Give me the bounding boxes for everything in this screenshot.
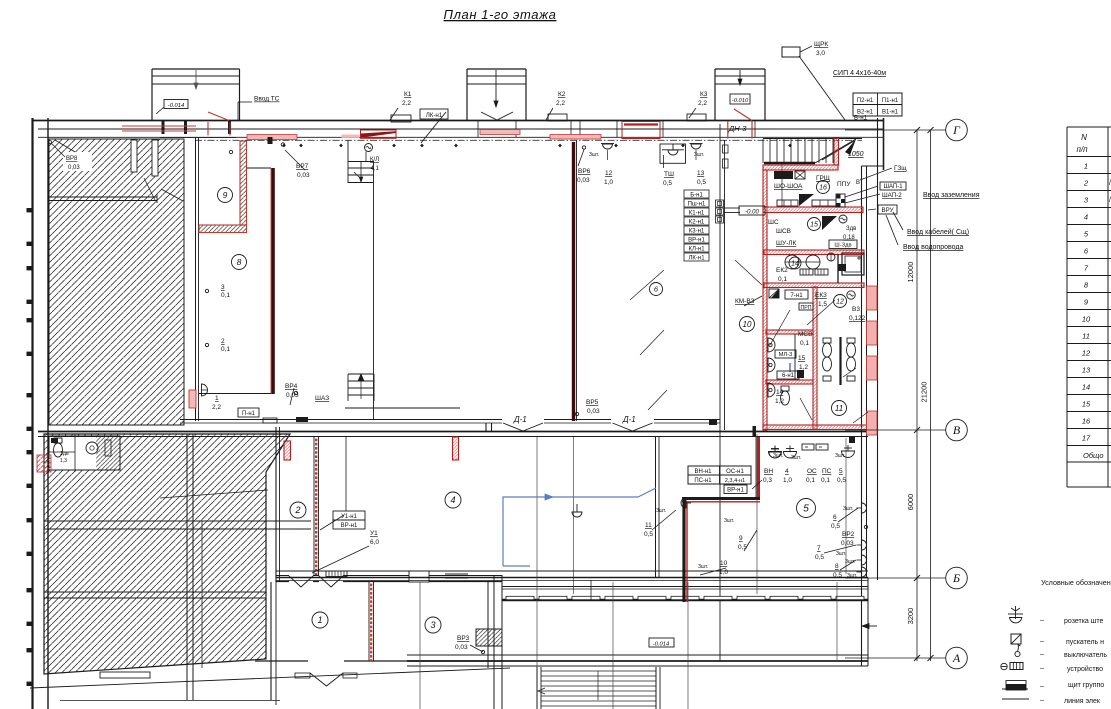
- svg-text:Д-1: Д-1: [622, 415, 636, 424]
- svg-text:10: 10: [720, 560, 728, 567]
- svg-text:линия элек: линия элек: [1064, 698, 1101, 705]
- svg-text:В1-н1: В1-н1: [882, 110, 899, 116]
- svg-text:К/Л: К/Л: [370, 157, 379, 163]
- svg-text:выключатель: выключатель: [1064, 652, 1107, 659]
- svg-text:ТШ: ТШ: [664, 171, 674, 178]
- svg-text:–: –: [1040, 638, 1044, 645]
- svg-text:ВР3: ВР3: [457, 635, 470, 642]
- svg-text:ШАП-1: ШАП-1: [883, 184, 903, 190]
- svg-text:1: 1: [1084, 162, 1088, 171]
- svg-text:В3: В3: [852, 306, 860, 313]
- svg-text:ЕК2: ЕК2: [776, 267, 788, 274]
- svg-text:ВР-н1: ВР-н1: [341, 523, 358, 529]
- svg-text:15: 15: [798, 355, 806, 362]
- svg-text:В: В: [953, 423, 961, 437]
- svg-text:6-н1: 6-н1: [782, 373, 795, 379]
- svg-text:1: 1: [215, 395, 219, 402]
- svg-text:1050: 1050: [848, 151, 864, 158]
- svg-text:12: 12: [1082, 349, 1091, 358]
- svg-text:0,5: 0,5: [833, 572, 842, 579]
- svg-text:Ввод заземления: Ввод заземления: [923, 192, 980, 199]
- svg-text:ВР2: ВР2: [842, 531, 855, 538]
- svg-text:12: 12: [605, 170, 613, 177]
- svg-text:МЛ-3: МЛ-3: [779, 352, 793, 358]
- svg-text:ВР7: ВР7: [296, 163, 309, 170]
- svg-text:6000: 6000: [906, 494, 915, 511]
- svg-text:N: N: [1081, 133, 1087, 142]
- svg-text:0,5: 0,5: [837, 477, 846, 484]
- svg-text:1,0: 1,0: [604, 179, 613, 186]
- svg-text:5: 5: [803, 504, 809, 515]
- svg-text:МСВ: МСВ: [798, 331, 812, 338]
- svg-text:ППУ: ППУ: [837, 181, 851, 188]
- svg-text:-0.014: -0.014: [653, 642, 669, 648]
- svg-text:8: 8: [237, 257, 242, 267]
- svg-text:10: 10: [1082, 315, 1091, 324]
- svg-text:0,1: 0,1: [221, 346, 230, 353]
- svg-text:0,3: 0,3: [763, 477, 772, 484]
- svg-text:16: 16: [819, 184, 827, 191]
- svg-text:2,2: 2,2: [402, 100, 411, 107]
- svg-text:КЛ-н1: КЛ-н1: [688, 247, 705, 253]
- svg-text:0,5: 0,5: [697, 179, 706, 186]
- svg-text:2: 2: [221, 338, 225, 345]
- svg-text:Здв: Здв: [60, 451, 69, 457]
- svg-text:4: 4: [785, 468, 789, 475]
- svg-text:13: 13: [697, 170, 705, 177]
- svg-text:ОС: ОС: [807, 468, 817, 475]
- svg-text:9: 9: [739, 535, 743, 542]
- svg-text:ГЗщ: ГЗщ: [894, 165, 907, 172]
- svg-text:2: 2: [1083, 179, 1089, 188]
- svg-text:11: 11: [645, 522, 652, 529]
- svg-text:17: 17: [1082, 434, 1091, 443]
- svg-text:ПС-н1: ПС-н1: [694, 478, 712, 484]
- svg-text:1,5: 1,5: [818, 301, 827, 308]
- svg-text:0,1: 0,1: [806, 477, 815, 484]
- svg-text:6: 6: [833, 514, 837, 521]
- svg-text:1,2: 1,2: [775, 398, 784, 405]
- svg-text:ПРП: ПРП: [801, 305, 812, 311]
- svg-text:ВР6: ВР6: [578, 168, 591, 175]
- svg-text:2,3,4-н1: 2,3,4-н1: [725, 478, 746, 484]
- svg-text:Пш-н1: Пш-н1: [688, 202, 706, 208]
- svg-text:7-н1: 7-н1: [790, 292, 803, 299]
- svg-text:0,5: 0,5: [663, 180, 672, 187]
- svg-text:12000: 12000: [906, 262, 915, 283]
- svg-text:16: 16: [1082, 417, 1091, 426]
- svg-text:В: В: [856, 180, 860, 186]
- svg-text:Д-1: Д-1: [513, 415, 527, 424]
- svg-text:Здв: Здв: [846, 226, 856, 232]
- svg-text:1: 1: [317, 615, 322, 625]
- svg-text:Ш-Здв: Ш-Здв: [834, 243, 851, 249]
- svg-text:Зшт.: Зшт.: [724, 518, 734, 524]
- svg-text:П1-н1: П1-н1: [882, 98, 899, 104]
- svg-text:14: 14: [776, 389, 784, 396]
- svg-text:–: –: [1040, 651, 1044, 658]
- svg-text:3200: 3200: [906, 608, 915, 625]
- svg-text:ДН-3: ДН-3: [728, 124, 747, 133]
- svg-text:0,5: 0,5: [815, 554, 824, 561]
- svg-text:11: 11: [1082, 332, 1090, 341]
- svg-text:9: 9: [223, 190, 228, 200]
- svg-text:План 1-го этажа: План 1-го этажа: [444, 7, 557, 22]
- svg-text:К2-н1: К2-н1: [689, 220, 705, 226]
- svg-text:0,03: 0,03: [68, 165, 80, 171]
- svg-text:12: 12: [836, 298, 844, 305]
- svg-text:ЛК-н1: ЛК-н1: [426, 112, 443, 119]
- svg-text:1,0: 1,0: [719, 569, 728, 576]
- svg-text:ВР4: ВР4: [285, 383, 298, 390]
- svg-text:3: 3: [221, 284, 225, 291]
- svg-text:14: 14: [791, 260, 799, 267]
- svg-text:А: А: [952, 651, 961, 665]
- svg-text:ШО-ШОА: ШО-ШОА: [774, 183, 803, 190]
- svg-text:2: 2: [294, 505, 300, 515]
- svg-text:К1-н1: К1-н1: [689, 211, 705, 217]
- svg-text:ПС: ПС: [822, 468, 832, 475]
- svg-text:-0.010: -0.010: [732, 98, 749, 104]
- svg-text:–: –: [1040, 683, 1044, 690]
- svg-text:–: –: [1040, 617, 1044, 624]
- svg-text:ВН: ВН: [764, 468, 773, 475]
- svg-text:0,03: 0,03: [455, 644, 468, 651]
- svg-text:4: 4: [1084, 213, 1088, 222]
- svg-text:3: 3: [430, 620, 435, 630]
- svg-text:0,5: 0,5: [831, 523, 840, 530]
- svg-text:Ввод кабелей( Сщ): Ввод кабелей( Сщ): [907, 228, 969, 236]
- svg-text:пускатель н: пускатель н: [1066, 639, 1104, 646]
- svg-text:Зшт.: Зшт.: [694, 152, 704, 158]
- svg-text:2,2: 2,2: [698, 100, 707, 107]
- svg-text:0,1: 0,1: [800, 340, 809, 347]
- svg-text:6,0: 6,0: [370, 539, 379, 546]
- svg-text:3,0: 3,0: [816, 50, 825, 57]
- svg-text:ШАП-2: ШАП-2: [882, 192, 902, 199]
- svg-text:10: 10: [743, 320, 752, 329]
- svg-text:К3: К3: [700, 91, 708, 98]
- svg-text:4: 4: [450, 495, 455, 505]
- svg-text:-0.014: -0.014: [168, 103, 184, 109]
- svg-text:Зшт.: Зшт.: [589, 152, 599, 158]
- svg-text:0,03: 0,03: [297, 172, 310, 179]
- svg-text:Г: Г: [952, 123, 961, 137]
- svg-text:К2: К2: [558, 91, 566, 98]
- svg-text:4,1: 4,1: [371, 166, 380, 172]
- svg-text:ШС: ШС: [768, 219, 779, 226]
- svg-text:П2-н1: П2-н1: [857, 98, 874, 104]
- svg-text:устройство: устройство: [1067, 665, 1103, 673]
- svg-text:1,2: 1,2: [799, 364, 808, 371]
- svg-text:1,0: 1,0: [783, 477, 792, 484]
- svg-text:15: 15: [1082, 400, 1091, 409]
- svg-text:К1: К1: [404, 91, 412, 98]
- svg-text:0,5: 0,5: [644, 531, 653, 538]
- svg-text:Зшт.: Зшт.: [835, 453, 845, 459]
- svg-text:Б: Б: [952, 571, 960, 585]
- svg-text:ОС-н1: ОС-н1: [726, 469, 744, 475]
- svg-text:ШСВ: ШСВ: [776, 228, 791, 235]
- svg-text:13: 13: [1082, 366, 1091, 375]
- svg-text:–: –: [1040, 697, 1044, 704]
- svg-text:ЩРК: ЩРК: [814, 41, 828, 48]
- svg-text:0,1: 0,1: [221, 292, 230, 299]
- svg-text:Ввод водопровода: Ввод водопровода: [903, 244, 963, 251]
- svg-text:Зшт.: Зшт.: [791, 455, 801, 461]
- svg-text:Ввод ТС: Ввод ТС: [254, 96, 280, 103]
- svg-text:В-н1: В-н1: [854, 115, 868, 122]
- svg-text:2,2: 2,2: [556, 100, 565, 107]
- svg-text:ЛК-н1: ЛК-н1: [688, 256, 705, 262]
- svg-text:0,03: 0,03: [577, 177, 590, 184]
- svg-text:0,122: 0,122: [849, 315, 866, 322]
- svg-text:0,1: 0,1: [778, 276, 787, 283]
- svg-text:п/п: п/п: [1076, 145, 1088, 154]
- svg-text:5: 5: [839, 468, 843, 475]
- svg-text:Зшт.: Зшт.: [836, 551, 846, 557]
- svg-text:Б-н1: Б-н1: [690, 193, 703, 199]
- svg-text:СИП 4 4х16-40м: СИП 4 4х16-40м: [833, 70, 886, 77]
- svg-text:ВН-н1: ВН-н1: [695, 469, 713, 475]
- svg-text:ВР-н1: ВР-н1: [688, 238, 705, 244]
- svg-text:Условные обозначени: Условные обозначени: [1041, 578, 1111, 587]
- svg-text:К3-н1: К3-н1: [689, 229, 705, 235]
- svg-text:15: 15: [810, 221, 818, 228]
- svg-text:2,2: 2,2: [212, 404, 221, 411]
- svg-text:Зшт.: Зшт.: [843, 506, 853, 512]
- svg-text:щит группо: щит группо: [1068, 682, 1104, 689]
- svg-text:У1: У1: [370, 530, 378, 537]
- svg-text:21200: 21200: [920, 382, 929, 403]
- svg-text:розетка ште: розетка ште: [1064, 618, 1104, 625]
- svg-text:ВР5: ВР5: [586, 399, 599, 406]
- svg-text:ШУ-ЛК: ШУ-ЛК: [776, 240, 797, 247]
- svg-text:Зшт.: Зшт.: [656, 508, 666, 514]
- svg-text:Зшт.: Зшт.: [698, 564, 708, 570]
- svg-text:Зшт.: Зшт.: [847, 573, 857, 579]
- svg-text:ЕК3: ЕК3: [815, 292, 827, 299]
- svg-text:8: 8: [835, 563, 839, 570]
- svg-text:ВР-н1: ВР-н1: [727, 488, 744, 494]
- svg-text:–: –: [1040, 665, 1044, 672]
- svg-text:П-н1: П-н1: [242, 411, 256, 417]
- svg-text:ВРУ: ВРУ: [881, 207, 893, 214]
- svg-text:-0.00: -0.00: [745, 210, 759, 216]
- svg-text:ШАЗ: ШАЗ: [315, 395, 329, 402]
- svg-text:11: 11: [835, 404, 843, 413]
- svg-text:0,1: 0,1: [821, 477, 830, 484]
- svg-text:7: 7: [817, 545, 821, 552]
- svg-text:Общо: Общо: [1083, 451, 1104, 460]
- svg-text:ВР8: ВР8: [66, 156, 78, 162]
- svg-text:1,3: 1,3: [60, 458, 67, 464]
- svg-text:Зшт.: Зшт.: [773, 453, 783, 459]
- svg-text:0,03: 0,03: [587, 408, 600, 415]
- svg-text:14: 14: [1082, 383, 1090, 392]
